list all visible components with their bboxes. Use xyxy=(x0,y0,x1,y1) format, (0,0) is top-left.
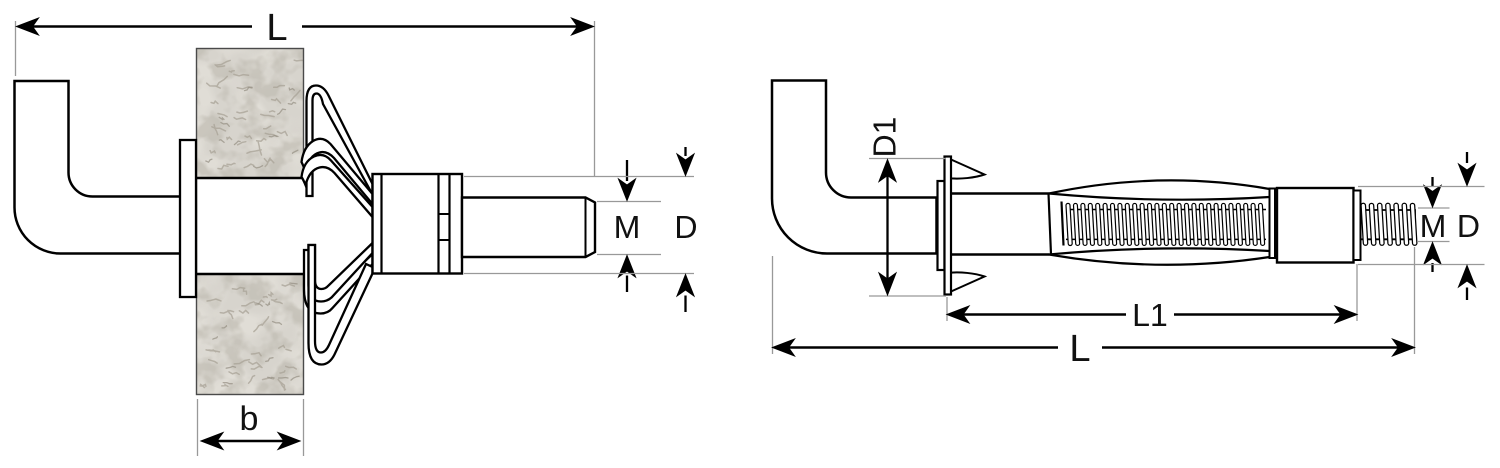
threaded stud root (right diagram) xyxy=(1361,210,1416,239)
wall section (textured) xyxy=(197,49,305,395)
sleeve plain section xyxy=(951,194,1049,255)
top tooth xyxy=(951,160,985,179)
thread root lines in bulge xyxy=(1066,210,1266,240)
hook (right diagram) xyxy=(772,81,937,254)
threaded stud thread crests (right diagram) xyxy=(1361,203,1417,245)
sleeve end edge xyxy=(1049,194,1052,255)
dimension L (left diagram, top) xyxy=(16,14,595,176)
anchor body through wall xyxy=(197,178,308,274)
nut cylinder (right end) xyxy=(1277,188,1354,263)
dimension D (left diagram) xyxy=(464,147,696,312)
dimension L (right diagram) xyxy=(773,247,1415,361)
end cap band xyxy=(1354,191,1361,261)
collar / nut assembly (left diagram) xyxy=(373,174,463,274)
expansion leg A top (tall hairpin) xyxy=(307,86,373,197)
sleeve bulge section with slots xyxy=(1049,180,1270,264)
screw threads visible in bulge slot xyxy=(1066,203,1265,245)
expansion leg C bottom (second U strip) xyxy=(304,250,373,314)
dimension b (left diagram, bottom) xyxy=(198,399,304,456)
flange plate (left diagram) xyxy=(180,140,196,297)
expansion leg B bottom (front U strip) xyxy=(309,243,373,302)
bottom tooth xyxy=(951,272,985,291)
expansion leg C top (lower arch) xyxy=(302,155,373,217)
dimension L1 xyxy=(947,264,1357,326)
expansion leg B top (middle arch) xyxy=(302,139,373,204)
dimension M (left diagram) xyxy=(597,160,661,292)
dimension D (right diagram) xyxy=(1358,152,1485,300)
flange plate (right diagram) xyxy=(945,157,952,295)
washer plate (right diagram) xyxy=(938,181,945,270)
sleeve end ring xyxy=(1270,189,1276,259)
threaded stud (left diagram) xyxy=(462,198,595,258)
dimension M (right diagram) xyxy=(1418,177,1450,272)
expansion leg A bottom (big outer loop) xyxy=(309,245,373,365)
hook (left diagram) xyxy=(15,81,182,254)
dimension D1 xyxy=(869,118,946,296)
